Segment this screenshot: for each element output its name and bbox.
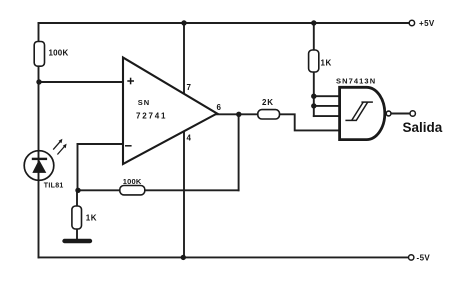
wire node B to R3 top: [76, 190, 78, 206]
NAND gate U2 SN7413N: [336, 76, 391, 139]
photodiode TIL81: [24, 151, 63, 190]
light arrow 2: [57, 144, 66, 155]
junction dot pin4 / bottom rail: [181, 255, 186, 260]
wire gate input stub 1: [314, 95, 338, 97]
wire gate input stub 2: [314, 105, 338, 107]
junction dot gate input 2: [311, 103, 316, 108]
svg-text:1K: 1K: [321, 59, 332, 68]
junction dot gate input 1: [311, 94, 316, 99]
terminal Salida output: [403, 111, 443, 135]
wire R3 bottom to ground: [76, 229, 78, 240]
svg-text:Salida: Salida: [403, 120, 443, 135]
terminal +5V: [409, 19, 435, 28]
output inversion bubble: [386, 111, 391, 116]
svg-text:SN7413N: SN7413N: [336, 76, 376, 85]
svg-text:100K: 100K: [49, 48, 69, 57]
wire feedback row node B to R2: [78, 189, 120, 191]
svg-text:+5V: +5V: [419, 19, 435, 28]
svg-text:100K: 100K: [123, 177, 142, 186]
junction dot 1K branch / top rail: [311, 20, 316, 25]
wire top +5V rail: [39, 22, 410, 24]
resistor R5 2K: [258, 98, 280, 119]
wire - input down to node B: [77, 144, 79, 190]
wire pin 7 to +5V rail: [183, 23, 185, 95]
wire feedback row R2 to corner: [145, 189, 239, 191]
node A junction dot: [36, 79, 41, 84]
svg-text:72741: 72741: [136, 111, 167, 120]
light arrow 1: [53, 139, 62, 150]
wire R4 down to gate inputs: [313, 72, 315, 116]
resistor R4 1K pull-up: [309, 50, 332, 72]
wire node A to op-amp + input: [39, 81, 124, 83]
op-amp U1 SN72741: [123, 58, 222, 165]
resistor R1 100K: [34, 42, 68, 67]
svg-text:SN: SN: [138, 98, 150, 107]
wire pin 4 to -5V rail: [183, 131, 185, 258]
svg-text:4: 4: [187, 134, 192, 143]
wire 2K to corner: [280, 114, 338, 130]
svg-text:6: 6: [217, 103, 222, 112]
wire bottom -5V rail: [39, 256, 409, 258]
svg-text:-5V: -5V: [417, 254, 431, 263]
junction dot pin7 / top rail: [181, 20, 186, 25]
ground: [65, 239, 91, 243]
wire gate input stub 3: [314, 115, 338, 117]
wire op-amp - input horizontal: [78, 143, 124, 145]
schmitt hysteresis symbol: [345, 102, 373, 120]
wire left vertical branch: [38, 23, 40, 257]
resistor R2 100K feedback: [120, 177, 145, 195]
svg-text:7: 7: [187, 83, 192, 92]
wire op-amp output to 2K: [215, 113, 258, 115]
node C junction dot: [236, 112, 241, 117]
node B junction dot: [75, 188, 80, 193]
wire feedback vertical up to node C: [238, 114, 240, 190]
svg-text:TIL81: TIL81: [44, 183, 64, 190]
wire gate output to Salida terminal: [391, 113, 410, 115]
terminal -5V: [409, 254, 431, 263]
wire +5V rail down to R4: [313, 23, 315, 50]
svg-text:1K: 1K: [86, 214, 97, 223]
resistor R3 1K: [72, 206, 97, 229]
svg-text:2K: 2K: [262, 98, 274, 107]
